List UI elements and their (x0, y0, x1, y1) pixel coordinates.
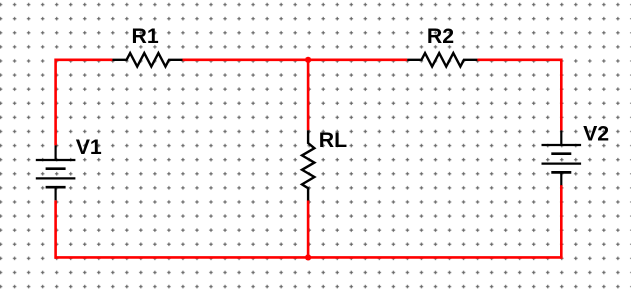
wire top-right segment (477, 60, 561, 131)
resistor R2 (407, 53, 477, 67)
svg-text:R1: R1 (132, 24, 159, 48)
wire top-left segment (56, 60, 113, 146)
node junction bottom (305, 254, 311, 260)
resistor R1 (112, 53, 182, 67)
svg-text:V1: V1 (76, 135, 102, 159)
battery V1 (36, 145, 76, 200)
svg-text:V2: V2 (583, 121, 609, 145)
wire left lower (54, 200, 57, 258)
battery V2 (542, 130, 582, 185)
wire middle branch lower (307, 201, 310, 258)
wire top-middle segment (183, 58, 408, 61)
node junction top (305, 57, 311, 63)
wire bottom (54, 256, 562, 259)
svg-text:R2: R2 (427, 24, 454, 48)
resistor RL (302, 130, 314, 200)
wire middle branch upper (307, 60, 310, 130)
wire right lower (560, 185, 563, 259)
svg-text:RL: RL (319, 128, 347, 152)
